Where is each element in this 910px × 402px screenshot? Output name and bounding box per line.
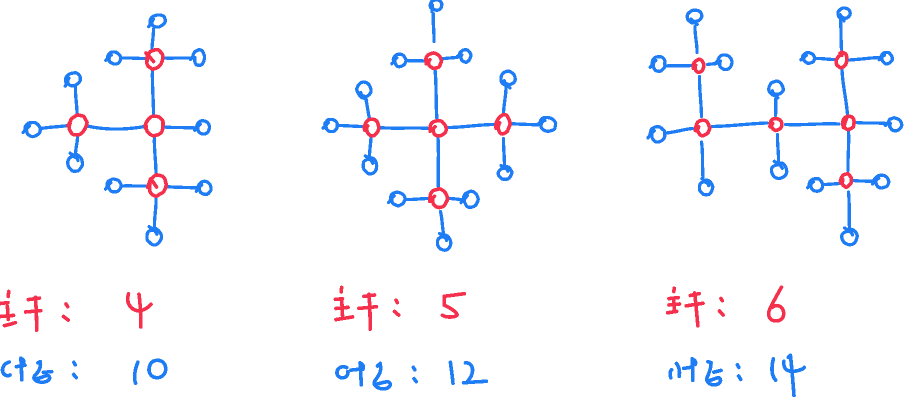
leaf below E2	[437, 234, 450, 251]
red node D3 (right-top of structure 3)	[836, 52, 847, 68]
red node E2 (bottom of structure 2)	[430, 189, 448, 208]
red colon	[66, 304, 68, 307]
edge A2 left-leaf	[407, 59, 426, 63]
red node D2 (right of structure 2)	[496, 115, 510, 134]
edge A3 left-leaf	[667, 64, 692, 68]
leaf below D2	[498, 166, 512, 180]
edge A2 top-leaf	[431, 14, 435, 42]
edge B2 left-leaf	[338, 125, 365, 126]
edge D2 right-leaf	[511, 124, 539, 126]
edge D2 top-leaf	[504, 87, 507, 114]
edge A3 top-leaf	[695, 27, 697, 53]
text 干 (red)	[364, 295, 375, 296]
leaf left of D1	[106, 179, 122, 192]
red node C2 (middle of structure 2)	[430, 121, 446, 136]
leaf right of E2	[461, 191, 478, 207]
leaf left of D3	[801, 53, 815, 64]
leaf left of F3	[808, 179, 823, 192]
red node A2 (top of structure 2)	[426, 53, 441, 68]
leaf below B3	[699, 179, 712, 195]
numeral 6 (red)	[769, 287, 784, 321]
leaf above A3	[687, 10, 702, 24]
edge B1-C1	[87, 126, 145, 129]
text 叶 (blue)	[337, 367, 348, 378]
leaf left of E2	[389, 192, 405, 206]
edge C1 right-leaf	[164, 127, 196, 128]
edge A3 right-leaf	[708, 64, 717, 65]
leaf below D1	[147, 227, 162, 245]
numeral 0 (blue)	[149, 360, 166, 377]
leaf below F3	[842, 228, 858, 245]
edge D1 left-leaf	[122, 184, 148, 188]
text 子 (blue)	[378, 363, 381, 366]
leaf left of A1	[106, 52, 121, 64]
leaf right of D1	[196, 181, 211, 194]
edge E2 right-leaf	[448, 198, 463, 199]
edge F3 bottom-leaf	[849, 192, 850, 228]
leaf below B1	[68, 153, 83, 171]
edge A1-C1	[152, 70, 153, 116]
text 子 (blue)	[708, 362, 711, 363]
numeral 1 (blue)	[772, 359, 776, 380]
edge B2 bottom-leaf	[370, 137, 372, 157]
edge A2-C2	[435, 70, 437, 120]
leaf far-left of B1	[23, 123, 40, 137]
edge A3-B3	[699, 77, 701, 117]
leaf above D3	[838, 8, 850, 21]
edge D1 right-leaf	[166, 187, 198, 189]
red node B1 (left of structure 1)	[68, 115, 87, 135]
leaf above D2	[501, 71, 515, 88]
edge F3 left-leaf	[823, 184, 840, 185]
text 主 (red)	[339, 288, 343, 293]
red node F3 (right-bottom of structure 3)	[840, 174, 851, 187]
text 子 (blue)	[38, 362, 41, 363]
leaf above A1	[149, 15, 166, 27]
leaf above B1	[65, 73, 80, 86]
edge A1 top-leaf	[152, 29, 154, 50]
leaf right of C1	[195, 121, 210, 134]
edge D3 right-leaf	[849, 58, 879, 61]
leaf above A2	[430, 0, 442, 12]
numeral 2 (blue)	[466, 363, 473, 381]
red node C1 (middle of structure 1)	[145, 116, 163, 136]
red node B2 (left of structure 2)	[364, 119, 379, 136]
edge B3 left-leaf	[666, 129, 693, 134]
leaf right of A2	[457, 50, 471, 62]
leaf below B2	[363, 156, 376, 174]
edge C2-E2	[436, 138, 440, 190]
edge B1 bottom-leaf	[75, 137, 77, 155]
text 干 (red)	[690, 294, 699, 296]
leaf far-right of E3	[885, 118, 901, 131]
edge B1 left-leaf	[41, 126, 69, 129]
leaf above C3	[769, 81, 784, 98]
text 叶 (blue)	[670, 370, 671, 378]
edge D3 top-leaf	[841, 20, 842, 50]
edge D3-E3	[842, 70, 848, 115]
edge C1-D1	[154, 137, 156, 175]
edge B3 bottom-leaf	[702, 142, 704, 177]
edge D2 bottom-leaf	[503, 139, 504, 166]
edge B2 top-leaf	[366, 98, 370, 119]
leaf below C3	[771, 161, 786, 178]
leaf right of D3	[879, 53, 892, 64]
edge B1 top-leaf	[75, 87, 77, 114]
leaf right of A3	[715, 55, 732, 70]
leaf left of A2	[392, 54, 406, 66]
blue colon	[737, 365, 739, 368]
leaf right of F3	[873, 175, 889, 188]
leaf left of A3	[650, 57, 665, 72]
text 主 (red)	[672, 288, 676, 291]
edge F3 right-leaf	[854, 181, 874, 182]
numeral 1 (blue)	[450, 362, 453, 383]
numeral 4 (red)	[128, 294, 151, 311]
red node D1 (bottom of structure 1)	[148, 175, 166, 196]
edge B3-C3	[712, 123, 767, 127]
edge A2 right-leaf	[442, 57, 459, 59]
red node C3 (center of structure 3)	[770, 119, 782, 131]
edge C3 top-leaf	[774, 98, 778, 116]
edge D3 left-leaf	[817, 58, 835, 59]
leaf far-left of B2	[323, 119, 337, 131]
edge C3 bottom-leaf	[777, 135, 778, 162]
numeral 4 (blue)	[784, 361, 805, 371]
edge A1 right-leaf	[163, 56, 193, 60]
leaf above B2	[357, 82, 371, 100]
blue colon	[74, 362, 75, 365]
text 主 (red, clipped at left edge)	[6, 292, 10, 297]
edge E3 right-leaf	[857, 123, 887, 124]
red node B3 (left-middle of structure 3)	[696, 120, 710, 136]
edge E2 bottom-leaf	[441, 212, 444, 234]
text 叶 (blue)	[3, 362, 10, 376]
edge B2-C2	[379, 128, 430, 129]
leaf right of A1	[191, 50, 205, 66]
red colon	[721, 299, 722, 301]
red node A1 (top of structure 1)	[147, 50, 163, 69]
text 干 (red)	[28, 298, 39, 300]
red node A3 (top-left of structure 3)	[693, 59, 704, 72]
edge A1 left-leaf	[121, 56, 145, 60]
red colon	[396, 300, 397, 302]
numeral 5 (red)	[442, 294, 464, 317]
red node E3 (right-middle of structure 3)	[843, 116, 854, 129]
edge E2 left-leaf	[405, 198, 430, 199]
edge E3-F3	[846, 132, 850, 171]
leaf far-left of B3	[648, 127, 665, 142]
leaf far-right of D2	[537, 117, 556, 131]
blue colon	[413, 367, 414, 369]
edge C2-D2	[446, 124, 496, 127]
edge C3-E3	[786, 122, 840, 126]
edge D1 bottom-leaf	[154, 197, 156, 228]
numeral 1 (blue)	[135, 362, 138, 383]
